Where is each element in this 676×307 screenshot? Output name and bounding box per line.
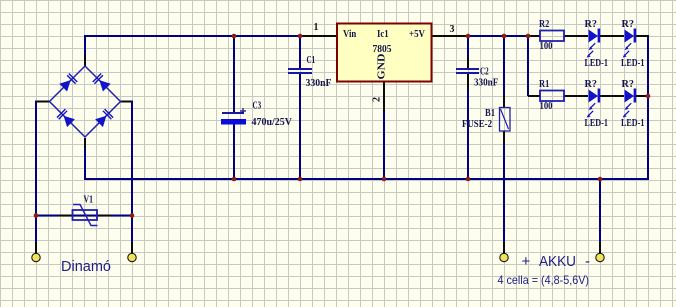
wire top rail from bridge to 7805 Vin bbox=[84, 35, 336, 37]
svg-text:Vin: Vin bbox=[343, 29, 357, 40]
fuse B1 body bbox=[500, 108, 511, 132]
terminal AKKU minus bbox=[596, 253, 604, 261]
regulator U1 7805 body bbox=[337, 24, 432, 82]
junction C2 top bbox=[466, 34, 471, 39]
svg-text:2: 2 bbox=[372, 97, 383, 102]
svg-text:7805: 7805 bbox=[373, 44, 392, 55]
svg-text:330nF: 330nF bbox=[306, 78, 332, 89]
bridge diode top-right bbox=[93, 74, 111, 92]
varistor V1 body bbox=[73, 205, 98, 226]
wire right rail (LED return) bbox=[647, 35, 649, 180]
svg-text:+: + bbox=[522, 253, 531, 270]
junction fuse top bbox=[502, 34, 507, 39]
wire 7805 GND pin 2 to rail bbox=[383, 82, 385, 179]
bridge diode bottom-left bbox=[57, 109, 75, 127]
resistor R1 body bbox=[540, 91, 564, 102]
wire C3 branch bbox=[233, 36, 235, 179]
svg-text:AKKU: AKKU bbox=[539, 253, 576, 270]
svg-text:470u/25V: 470u/25V bbox=[252, 117, 293, 128]
wire 7805 pin 3 output rail bbox=[432, 35, 649, 37]
wire dynamo terminal stubs bbox=[36, 242, 132, 253]
svg-text:R?: R? bbox=[622, 19, 635, 30]
wire fuse branch to AKKU plus bbox=[503, 36, 505, 253]
svg-text:R1: R1 bbox=[539, 79, 549, 90]
svg-text:R2: R2 bbox=[539, 19, 549, 30]
wire C1 branch bbox=[299, 36, 301, 179]
LED D-bot-1 bbox=[587, 89, 601, 118]
svg-text:Ic1: Ic1 bbox=[377, 29, 389, 40]
svg-text:3: 3 bbox=[450, 24, 455, 35]
capacitor C3 electrolytic plates bbox=[221, 108, 246, 125]
LED D-top-1 bbox=[587, 29, 601, 58]
terminal dynamo right bbox=[128, 253, 136, 261]
svg-text:LED-1: LED-1 bbox=[585, 58, 608, 69]
junction AKKU minus ground bbox=[598, 177, 603, 182]
junction C2 ground bbox=[466, 177, 471, 182]
LED D-top-2 bbox=[623, 29, 637, 58]
svg-text:+5V: +5V bbox=[409, 29, 426, 40]
svg-text:R?: R? bbox=[622, 79, 635, 90]
svg-text:-: - bbox=[585, 253, 590, 270]
svg-text:100: 100 bbox=[540, 101, 553, 112]
svg-text:Dinamó: Dinamó bbox=[61, 258, 111, 275]
svg-text:330nF: 330nF bbox=[474, 78, 498, 89]
svg-text:FUSE-2: FUSE-2 bbox=[462, 119, 492, 130]
bridge rectifier D1 diamond bbox=[50, 66, 121, 137]
junction LED row 2 right bbox=[646, 94, 651, 99]
wire C2 branch bbox=[467, 36, 469, 179]
wire varistor row bbox=[36, 215, 132, 217]
bridge diode top-left bbox=[59, 74, 77, 92]
svg-text:1: 1 bbox=[314, 22, 319, 33]
svg-text:B1: B1 bbox=[485, 108, 495, 119]
resistor R2 body bbox=[540, 31, 564, 42]
wire R1 LED row bbox=[528, 95, 648, 97]
wire bridge right to dynamo bbox=[120, 101, 132, 254]
capacitor C1 plates bbox=[288, 69, 312, 73]
wire bridge left to dynamo bbox=[36, 101, 50, 254]
junction C3 ground bbox=[232, 177, 237, 182]
svg-text:4 cella = (4,8-5,6V): 4 cella = (4,8-5,6V) bbox=[498, 273, 590, 287]
wire R1 branch drop bbox=[527, 35, 529, 96]
LED D-bot-2 bbox=[623, 89, 637, 118]
svg-text:V1: V1 bbox=[84, 195, 94, 206]
svg-text:C1: C1 bbox=[307, 55, 316, 66]
junction V1 left bbox=[34, 213, 39, 218]
wire bridge top bbox=[84, 35, 86, 66]
junction GND pin ground bbox=[382, 177, 387, 182]
junction R1 drop bbox=[526, 34, 531, 39]
svg-text:GND: GND bbox=[377, 54, 388, 80]
capacitor C2 plates bbox=[456, 69, 479, 73]
wire bridge bottom to ground rail bbox=[84, 138, 86, 179]
svg-text:R?: R? bbox=[585, 79, 598, 90]
svg-text:C3: C3 bbox=[253, 101, 262, 112]
svg-text:C2: C2 bbox=[480, 67, 489, 78]
terminal AKKU plus bbox=[500, 253, 508, 261]
svg-text:100: 100 bbox=[540, 41, 553, 52]
junction C3 top bbox=[232, 34, 237, 39]
wire AKKU minus to rail bbox=[599, 179, 601, 253]
svg-text:LED-1: LED-1 bbox=[621, 58, 644, 69]
junction V1 right bbox=[130, 213, 135, 218]
junction C1 top bbox=[298, 34, 303, 39]
wire ground rail bbox=[84, 178, 649, 180]
svg-text:LED-1: LED-1 bbox=[585, 118, 608, 129]
junction C1 ground bbox=[298, 177, 303, 182]
svg-text:R?: R? bbox=[585, 19, 598, 30]
terminal dynamo left bbox=[32, 253, 40, 261]
svg-text:LED-1: LED-1 bbox=[621, 118, 644, 129]
bridge diode bottom-right bbox=[95, 109, 113, 127]
